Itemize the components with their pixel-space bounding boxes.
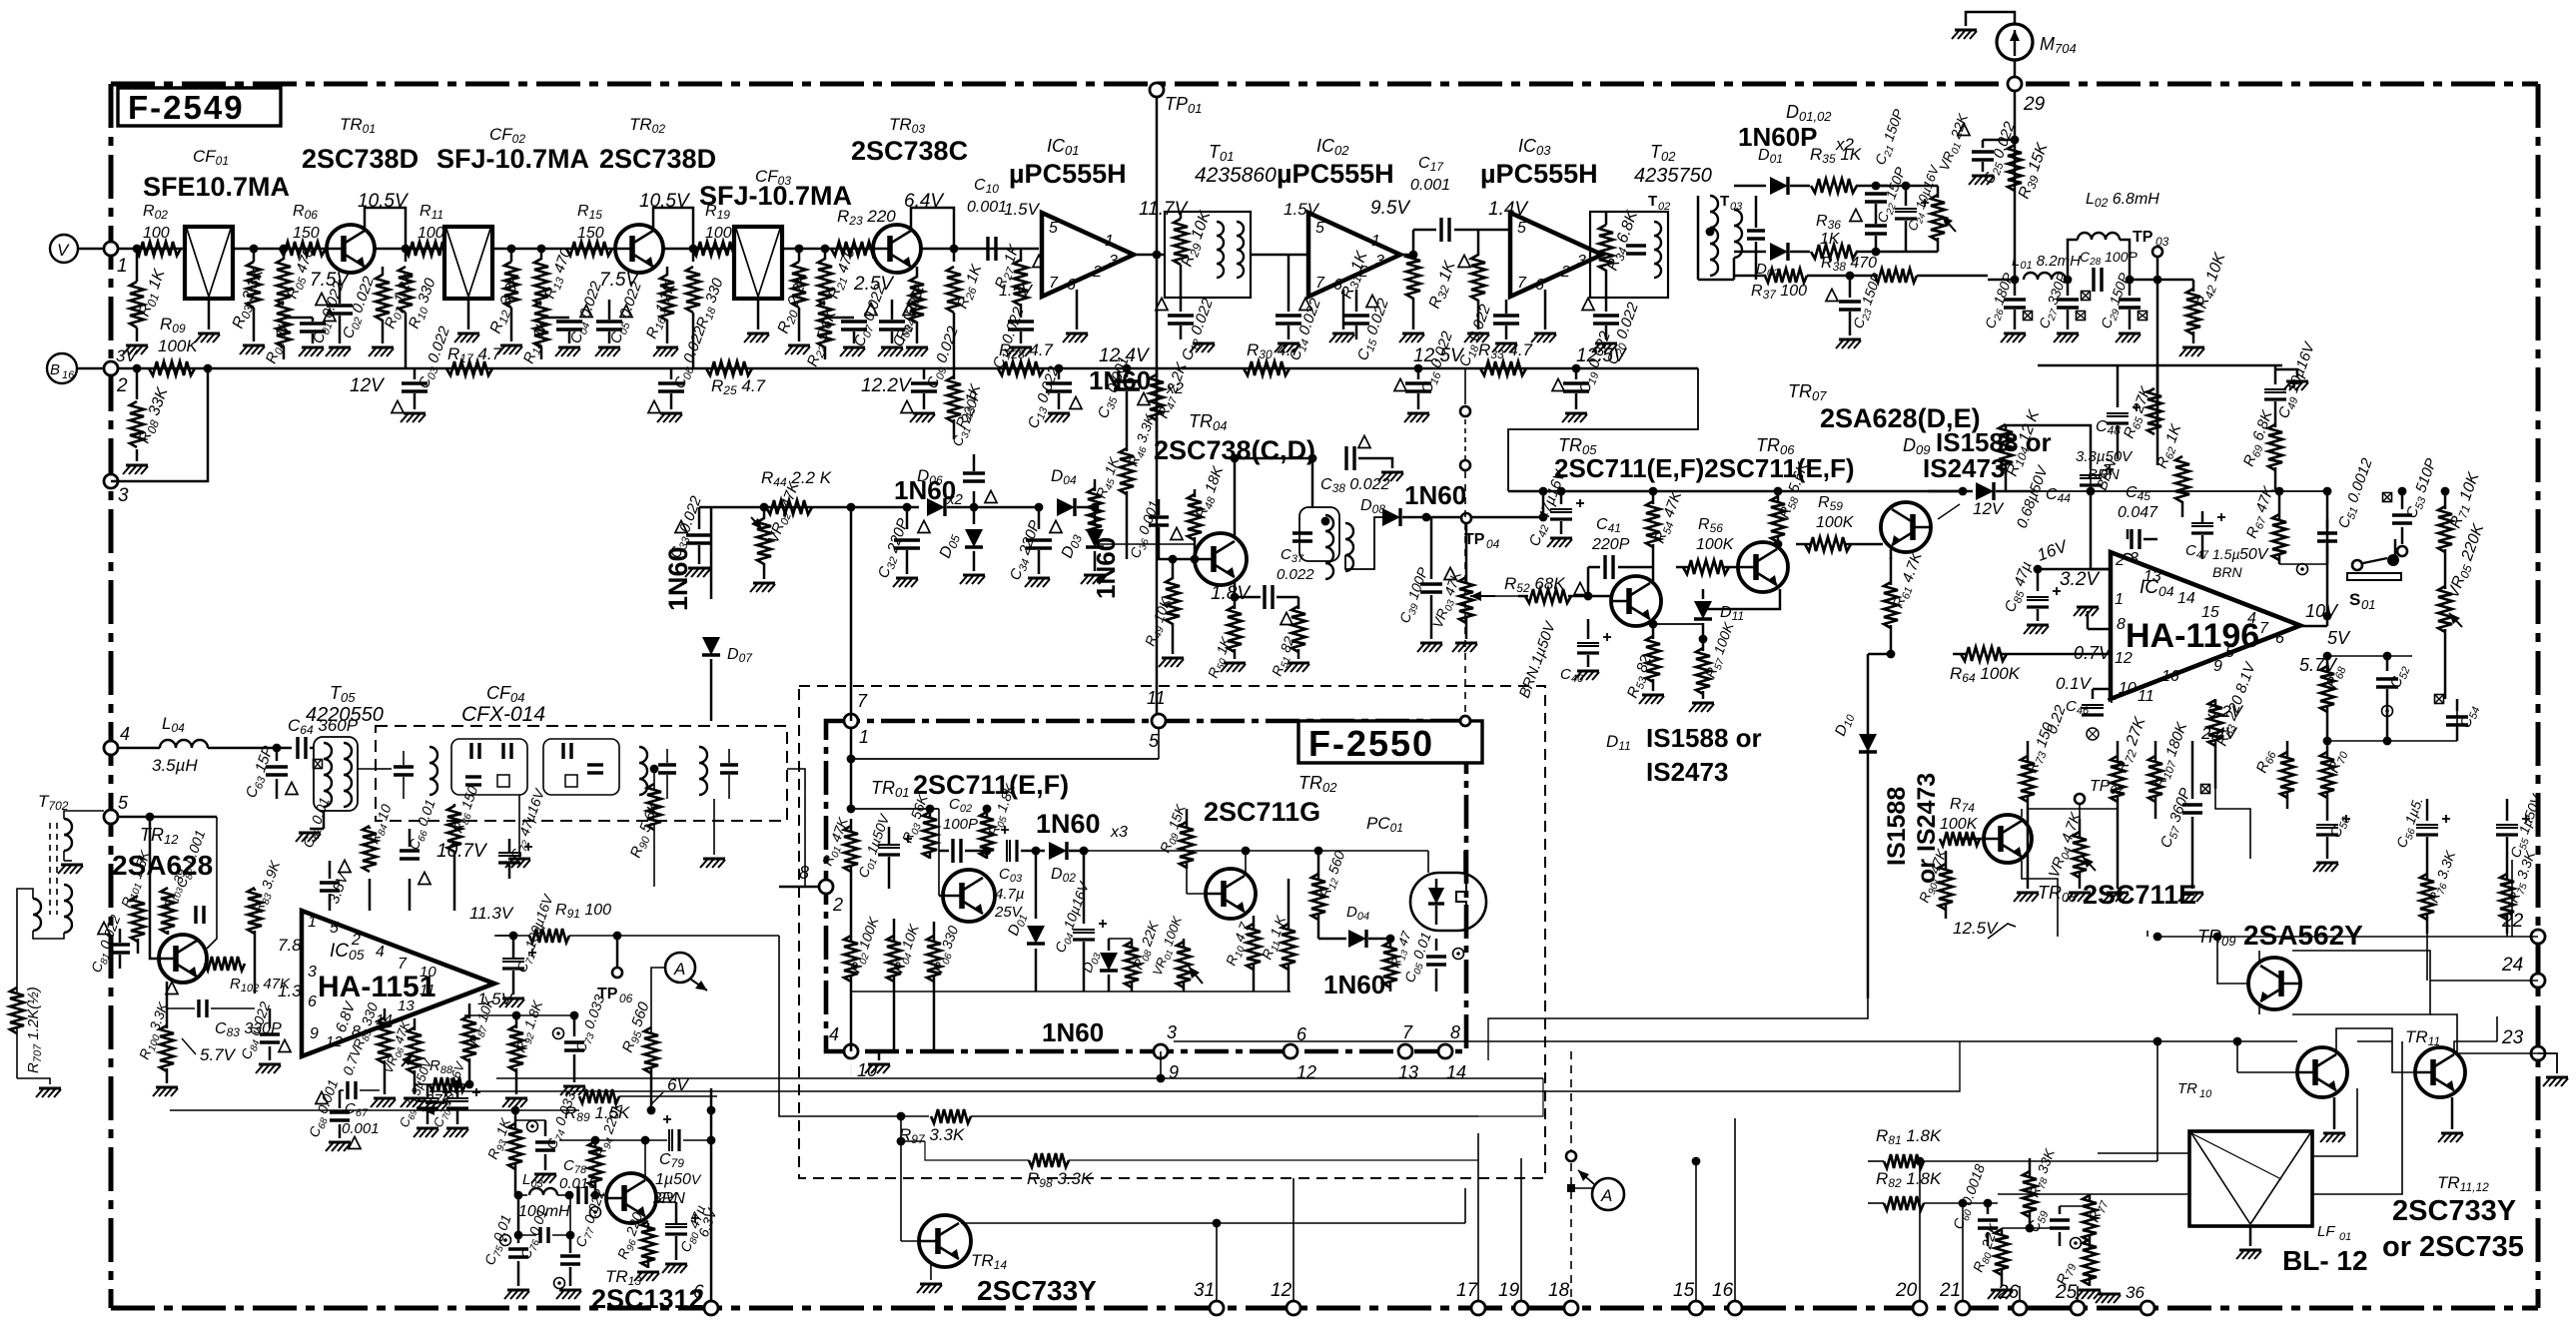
resistor R30 4.7 <box>1244 340 1301 375</box>
wire TR09 loop <box>2292 951 2430 1014</box>
capacitor C74 0.033 <box>515 1089 581 1183</box>
label TR11,12 2SC733Y or 2SC735 <box>2382 1173 2524 1263</box>
svg-text:µPC555H: µPC555H <box>1009 159 1127 189</box>
resistor R901 47K <box>1916 847 1953 919</box>
wire TR01 collector <box>365 208 406 249</box>
ground <box>2066 889 2091 902</box>
capacitor C39 100P <box>1396 517 1442 639</box>
wire C44 to pin1 <box>2091 529 2111 569</box>
resistor R10 4.7 <box>1223 916 1261 991</box>
resistor R81 1.8K <box>1868 1126 2157 1168</box>
wire BL12 right top <box>2312 1088 2357 1156</box>
filter CFX output coil <box>639 747 738 799</box>
svg-text:4: 4 <box>120 724 130 744</box>
wire VR03 to R52 <box>1495 595 1518 597</box>
wire R76 col bottom <box>2426 934 2428 981</box>
svg-text:7: 7 <box>1517 275 1527 292</box>
svg-text:3: 3 <box>2130 550 2139 567</box>
transformer T01 4235860 <box>1165 142 1277 298</box>
wire IC03 gnd pin <box>1544 290 1547 330</box>
voltage 3.2V <box>2060 569 2101 590</box>
resistor R63 220 <box>2208 659 2261 789</box>
svg-text:26: 26 <box>1997 1282 2020 1303</box>
pin 13 <box>398 997 415 1014</box>
svg-text:R30 4.7: R30 4.7 <box>1247 340 1301 361</box>
resistor R97 3.3K <box>897 1109 1079 1146</box>
resistor R26 1K <box>947 249 988 368</box>
ground <box>1639 695 1664 704</box>
svg-text:100K: 100K <box>1816 514 1855 531</box>
node junction <box>847 503 856 512</box>
svg-text:12.2V: 12.2V <box>861 375 913 396</box>
svg-text:R98 3.3K: R98 3.3K <box>1027 1169 1093 1190</box>
wire F2550 top rail <box>847 727 1159 813</box>
ground <box>1081 575 1106 584</box>
wire TR04 base row <box>1095 543 1195 545</box>
pin 3 <box>104 474 129 506</box>
voltage 1.4V <box>1488 199 1529 220</box>
pin 16 <box>2161 668 2179 685</box>
pin 1 <box>1105 233 1114 250</box>
resistor R74 100K <box>1940 796 1984 846</box>
svg-text:IS2473: IS2473 <box>1923 453 2005 483</box>
svg-text:6: 6 <box>2275 630 2284 647</box>
wire C44 col to rail <box>2090 469 2092 491</box>
svg-text:8: 8 <box>2117 616 2126 633</box>
capacitor C72 47u16V <box>498 786 550 879</box>
resistor R36 1K <box>1811 213 1876 259</box>
svg-text:04: 04 <box>1486 537 1500 551</box>
svg-text:2SC738D: 2SC738D <box>599 144 716 174</box>
ground <box>653 347 678 356</box>
resistor R09 15K <box>1157 802 1194 869</box>
capacitor C13 0.022 <box>1025 363 1082 431</box>
wire TR08 collector up <box>2021 809 2023 817</box>
resistor R02 100 <box>135 203 181 256</box>
resistor R89 1.5K <box>564 1089 717 1124</box>
resistor R13 470 / R14 1K <box>520 246 577 366</box>
test point TP06 <box>597 932 633 1005</box>
ground <box>2313 863 2338 872</box>
svg-text:5: 5 <box>1315 220 1324 237</box>
svg-text:10V: 10V <box>2305 601 2339 621</box>
svg-text:1.5V: 1.5V <box>1004 200 1041 219</box>
pin 8 <box>2117 616 2126 633</box>
wire main board border bottom edge <box>111 1306 2538 1311</box>
ground <box>371 1098 447 1111</box>
svg-text:R28 4.7: R28 4.7 <box>999 340 1054 361</box>
resistor R53 82 <box>1624 619 1660 701</box>
wire 12V row TR05 <box>1508 490 1963 493</box>
wire HA1196 out col <box>2456 699 2458 741</box>
wire apex out <box>2300 625 2327 628</box>
svg-text:03: 03 <box>1730 201 1743 213</box>
transistor TR01 2SC711 <box>939 809 995 922</box>
pin 23 <box>2501 1027 2568 1086</box>
ground <box>1285 663 1309 672</box>
resistor R47 2.2K <box>1150 359 1193 439</box>
ground <box>2001 333 2026 342</box>
svg-text:0.001: 0.001 <box>967 199 1007 216</box>
resistor R107 180K <box>2148 719 2192 819</box>
svg-text:2.5V: 2.5V <box>853 274 895 295</box>
diode D03 <box>1079 939 1118 991</box>
wire pin18 column <box>1570 1051 1572 1302</box>
svg-text:0.1V: 0.1V <box>2056 674 2093 693</box>
svg-text:5V: 5V <box>2327 628 2351 648</box>
ground <box>878 347 903 356</box>
wire pin31 column <box>1213 1219 1222 1302</box>
svg-text:A: A <box>673 960 685 979</box>
resistor R42 10K <box>2186 250 2231 343</box>
pin 1 <box>2115 591 2124 608</box>
pin 9 <box>2213 658 2222 675</box>
voltage 2.5V <box>853 274 895 295</box>
svg-text:29: 29 <box>2023 94 2046 115</box>
capacitor C14 0.022 <box>1276 255 1326 363</box>
svg-text:2SC733Y: 2SC733Y <box>2392 1195 2516 1227</box>
svg-text:3.2V: 3.2V <box>2060 569 2101 590</box>
ground <box>1025 578 1050 587</box>
svg-text:3: 3 <box>1167 1022 1177 1042</box>
wire TR11 base <box>2357 1041 2415 1072</box>
resistor R06 150 <box>280 203 326 256</box>
svg-text:5: 5 <box>330 920 339 937</box>
svg-text:9: 9 <box>1169 1062 1179 1082</box>
svg-text:1N60: 1N60 <box>1323 970 1385 999</box>
resistor R78 33K <box>2002 1146 2061 1232</box>
svg-text:11.3V: 11.3V <box>469 904 514 923</box>
ground <box>1562 413 1587 422</box>
capacitor C03 0.022 <box>392 324 455 412</box>
resistor R79 <box>2054 1239 2101 1299</box>
diode D02 <box>1734 243 1810 280</box>
wire pin19 column <box>1520 1158 1522 1302</box>
wire AGC row <box>699 506 851 509</box>
pin 15 <box>1673 1280 1703 1315</box>
wire right supply rail <box>2038 365 2282 429</box>
capacitor C36 0.001 <box>1127 498 1183 561</box>
ground <box>2320 1097 2345 1142</box>
inductor L03 100mH <box>514 1171 574 1220</box>
node junction <box>2011 276 2020 285</box>
resistor R38 470 <box>1821 255 1988 283</box>
pin 3 <box>2130 550 2139 567</box>
ground <box>240 345 265 354</box>
label 1N60 x3 <box>1036 809 1128 841</box>
pin 3 <box>308 964 317 981</box>
filter CF01 SFE10.7MA <box>143 147 290 330</box>
capacitor C32 220P <box>875 503 930 581</box>
node junction <box>1153 251 1162 260</box>
svg-text:7: 7 <box>1402 1022 1413 1042</box>
inductor L02 6.8mH <box>2068 191 2159 280</box>
voltage 12.5V <box>1953 919 2016 939</box>
node junction <box>402 245 411 254</box>
ground <box>123 345 148 354</box>
potentiometer VR05 220K <box>2438 521 2490 649</box>
wire F2550 pin stub <box>1157 1051 1166 1082</box>
capacitor C17 0.001 <box>1410 155 1508 255</box>
resistor R57 100K <box>1696 620 1740 699</box>
wire 12.5V label right <box>0 0 1 1</box>
svg-text:50V: 50V <box>2239 546 2269 563</box>
diode D02 1N60 <box>1021 842 1089 885</box>
pin 7 <box>1049 275 1059 292</box>
transistor TR05 2SC711 <box>1611 564 1661 626</box>
potentiometer VR01 22K <box>1876 111 1974 252</box>
label IS1588 or IS2473 vertical <box>1883 773 1941 884</box>
pin 5 <box>330 920 339 937</box>
svg-text:2SC711G: 2SC711G <box>1204 797 1320 827</box>
resistor R17 4.7 <box>446 344 502 375</box>
voltage 7.8V <box>278 936 315 955</box>
capacitor C48 3.3u50V <box>2076 365 2141 483</box>
capacitor C20 0.022 <box>1582 298 1644 367</box>
ground <box>685 568 710 577</box>
wire A meter link <box>651 968 665 1032</box>
pin 19 <box>1498 1280 1528 1315</box>
ground <box>960 575 985 584</box>
svg-text:100K: 100K <box>1940 816 1979 833</box>
ground <box>1159 658 1184 667</box>
svg-text:150: 150 <box>577 225 604 242</box>
pin 12 bottom <box>1271 1280 1300 1315</box>
filter CFX internal 2 <box>543 739 619 795</box>
wire 22 row <box>2153 933 2538 942</box>
capacitor C33 0.022 <box>667 493 712 564</box>
wire TP01 column <box>1156 90 1159 721</box>
wire R81 col <box>2153 1037 2162 1161</box>
wire detector out <box>1988 279 2015 282</box>
capacitor C45 0.047 <box>2118 484 2158 565</box>
resistor R37 100 <box>1734 269 1878 302</box>
ground <box>1547 538 1572 547</box>
svg-text:or 2SC735: or 2SC735 <box>2382 1231 2524 1263</box>
node junction <box>133 245 142 254</box>
voltage 11.3V <box>469 904 514 923</box>
ground <box>840 347 865 356</box>
wire R44 col to F2550 pin7 <box>850 507 853 715</box>
capacitor C71 100u16V <box>499 891 559 1007</box>
wire to IC02 <box>1251 254 1308 257</box>
wire long A <box>496 1077 1543 1079</box>
resistor R68 <box>2320 656 2349 741</box>
svg-text:HA-1196: HA-1196 <box>2126 617 2259 655</box>
svg-text:4: 4 <box>829 1024 839 1044</box>
svg-text:1.5V: 1.5V <box>999 283 1033 300</box>
svg-text:4: 4 <box>376 944 385 961</box>
ground <box>865 1051 890 1073</box>
svg-text:R23 220: R23 220 <box>837 207 896 228</box>
wire 24 row <box>2430 980 2538 982</box>
ground <box>1836 339 1861 348</box>
svg-text:1K: 1K <box>1820 231 1841 248</box>
wire TP03 down <box>2156 280 2159 429</box>
svg-text:3: 3 <box>1375 253 1384 270</box>
pin 2 <box>104 346 138 396</box>
resistor R103 39 <box>161 867 192 935</box>
svg-text:1N60: 1N60 <box>1091 537 1121 599</box>
resistor R83 3.9K <box>248 858 286 993</box>
resistor R66 <box>2253 741 2294 809</box>
capacitor C07 0.022 <box>825 282 891 349</box>
ground <box>1404 413 1429 422</box>
resistor R54 47K <box>1646 487 1687 564</box>
resistor R71 10K <box>2438 469 2485 569</box>
ground <box>750 583 775 592</box>
potentiometer VR01 100K <box>1150 913 1203 991</box>
pin 12 <box>2115 650 2133 667</box>
voltage 6V <box>651 1075 689 1104</box>
ground <box>1592 343 1617 352</box>
wire 23 row <box>2430 1014 2538 1053</box>
capacitor C62 0.01 <box>300 795 351 891</box>
resistor R72 27K <box>2111 714 2151 819</box>
ground <box>369 347 394 356</box>
voltage 10V 5V <box>2305 601 2351 648</box>
pin 24 <box>2501 955 2545 988</box>
resistor R100 3.3K <box>136 982 174 1083</box>
wire R62 col <box>2156 429 2159 465</box>
diode D03 1N60 <box>1059 503 1121 599</box>
capacitor C38 0.022 <box>1320 435 1403 495</box>
ground <box>401 413 426 422</box>
svg-text:16: 16 <box>62 369 75 381</box>
transistor TR04 2SC738(C,D) <box>1154 411 1315 585</box>
wire S01 link <box>2394 539 2397 561</box>
node junction <box>250 245 289 254</box>
svg-text:2: 2 <box>2115 552 2125 569</box>
pin 6 <box>1535 277 1544 294</box>
wire TR05-D11 <box>1653 623 1703 625</box>
ground <box>1531 333 1556 342</box>
resistor R20 2.2K <box>775 249 815 341</box>
svg-text:S: S <box>2349 590 2360 609</box>
voltage 1.5V <box>477 990 514 1008</box>
capacitor C37 0.022 <box>1231 546 1315 625</box>
capacitor C19 0.022 <box>1552 329 1616 409</box>
voltage 3.2V/2.4V <box>2200 702 2244 743</box>
svg-text:7.5V: 7.5V <box>310 270 351 291</box>
pin 29 <box>2008 60 2046 115</box>
pin 6/12 <box>1284 1024 1316 1082</box>
svg-text:0.7V: 0.7V <box>2074 643 2113 663</box>
svg-text:20: 20 <box>1895 1280 1918 1301</box>
svg-text:1N60: 1N60 <box>1042 1017 1104 1047</box>
capacitor CF04 input cap <box>376 747 437 799</box>
resistor R84 10 <box>363 802 398 872</box>
pin 4 <box>2247 610 2256 627</box>
svg-text:100: 100 <box>705 225 732 242</box>
resistor R96 220 <box>614 1210 659 1281</box>
pin 16 <box>1712 1280 1742 1315</box>
voltage 9.5V <box>1370 198 1411 219</box>
svg-text:10: 10 <box>2119 680 2137 697</box>
inductor L01 8.2mH <box>2012 253 2081 280</box>
svg-text:7: 7 <box>857 691 868 711</box>
node junction <box>2064 276 2073 285</box>
transformer T03 <box>1698 193 1765 280</box>
voltage 6.8V <box>333 998 360 1035</box>
pin 31 <box>1194 1280 1224 1315</box>
capacitor C64 360P <box>288 716 359 769</box>
resistor R65 27K <box>2121 383 2161 441</box>
svg-text:x2: x2 <box>946 491 964 508</box>
capacitor C02 0.022 <box>316 274 380 343</box>
wire pin21 column <box>1959 1199 1968 1302</box>
svg-text:2SC738D: 2SC738D <box>302 144 419 174</box>
svg-text:12: 12 <box>2115 650 2133 667</box>
voltage 2V <box>656 1189 677 1206</box>
transistor TR10 <box>2177 1047 2347 1100</box>
capacitor C40 1u50V BRN <box>1516 618 1611 700</box>
ground <box>2179 347 2204 356</box>
voltage 6.4V <box>904 191 945 212</box>
svg-text:14: 14 <box>1446 1062 1466 1082</box>
ground <box>1574 671 1599 680</box>
svg-text:IS1588: IS1588 <box>1883 787 1911 866</box>
capacitor C15 0.022 <box>1343 290 1394 363</box>
wire TP04 row to R52 <box>1517 598 1520 601</box>
transistor TR01 2SC711(E,F) label <box>871 770 1069 800</box>
svg-text:F-2549: F-2549 <box>128 89 245 126</box>
diode D07 1N60 vertical <box>663 507 753 685</box>
transformer T05 4220550 <box>296 683 384 842</box>
resistor R28 4.7 <box>998 340 1063 375</box>
voltage 5.7V <box>2299 655 2338 675</box>
svg-text:3: 3 <box>1577 253 1586 270</box>
resistor R11 1K <box>1259 879 1295 991</box>
label TR05 TR06 <box>1554 427 2052 483</box>
svg-text:03: 03 <box>2155 235 2169 249</box>
wire main board border F-2549 top edge <box>111 82 2538 87</box>
ground <box>195 333 220 342</box>
node junction <box>689 245 698 254</box>
diode D04 1N60 <box>1318 904 1390 999</box>
resistor R76 3.3K <box>2420 848 2461 934</box>
resistor R32 1K <box>1426 255 1485 330</box>
label LF01 BL-12 <box>2282 1223 2368 1276</box>
diode D04 1N60 <box>1051 365 1184 516</box>
capacitor C25 0.022 <box>1958 119 2021 187</box>
ground <box>1063 333 1088 342</box>
capacitor C84 0.022 <box>238 999 291 1073</box>
ground <box>2178 859 2203 902</box>
svg-text:2: 2 <box>116 375 128 396</box>
wire TR11 collector <box>2454 1016 2497 1054</box>
resistor R56 100K <box>1676 516 1738 574</box>
voltage 12.4V <box>1099 345 1151 366</box>
potentiometer VR06 47K <box>381 1017 422 1094</box>
pin 4 <box>376 944 385 961</box>
meter M704 <box>1997 24 2077 60</box>
svg-text:V: V <box>57 241 70 260</box>
svg-text:6: 6 <box>1535 277 1544 294</box>
capacitor C26 180P <box>1982 271 2033 331</box>
capacitor C04 10u16V <box>1052 847 1107 991</box>
capacitor C54 <box>2435 695 2483 742</box>
svg-text:19: 19 <box>1498 1280 1520 1301</box>
resistor R73 150 <box>2021 720 2060 809</box>
capacitor C04 0.022 <box>541 279 607 346</box>
svg-text:T: T <box>1648 193 1657 210</box>
voltage 16V <box>2035 536 2071 565</box>
pin 14 <box>2177 590 2195 607</box>
capacitor C24 10u16V <box>1876 163 1944 252</box>
capacitor C21 150P <box>1865 107 1910 202</box>
transistor TR14 2SC733Y <box>919 1215 1097 1306</box>
